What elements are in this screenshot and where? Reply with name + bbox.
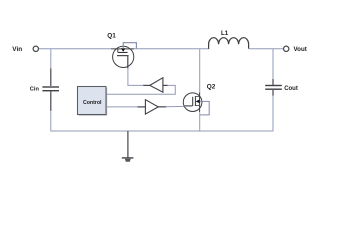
wire control to high-side driver (107, 85, 176, 94)
wire Q2 body-source loop (200, 101, 210, 115)
terminal Vout (284, 46, 289, 51)
transistor Q1 (111, 46, 134, 68)
wire control to low-side driver (107, 106, 138, 108)
wire input drop to Cin (50, 49, 52, 69)
wire Cout drop to ground rail (272, 96, 274, 132)
op-amp driver A2 (145, 100, 158, 114)
wire bottom ground rail (51, 130, 273, 132)
svg-text:Control: Control (83, 100, 102, 106)
op-amp driver A1 (150, 78, 163, 93)
wire low-side driver input lead (138, 106, 146, 108)
svg-text:Cin: Cin (30, 87, 40, 93)
terminal Vin (33, 46, 38, 51)
wire ground stem (127, 131, 129, 158)
wire Cout top lead (272, 79, 274, 85)
wire driver A2 output to Q2 gate (166, 105, 185, 107)
capacitor Cout (265, 85, 282, 90)
capacitor Cin (42, 86, 59, 91)
transistor Q2 (183, 93, 202, 113)
svg-text:L1: L1 (221, 30, 229, 37)
wire driver A1 output to Q1 gate (128, 68, 144, 85)
wire left drop to ground rail (50, 111, 52, 132)
wire output drop to Cout (272, 49, 274, 80)
inductor L1 (209, 38, 249, 49)
control block (78, 87, 108, 116)
wire switch node drop to Q2 (199, 49, 201, 94)
wire switch node rail (134, 48, 209, 50)
svg-text:Vout: Vout (294, 46, 307, 53)
wire Vin rail (39, 48, 112, 50)
wire output rail (249, 48, 284, 50)
wire Cin bottom lead (50, 92, 52, 112)
svg-text:Cout: Cout (284, 86, 298, 92)
svg-text:Vin: Vin (12, 46, 22, 53)
wire low-side driver output lead (158, 106, 166, 108)
svg-text:Q1: Q1 (107, 33, 116, 40)
svg-text:Q2: Q2 (207, 84, 216, 91)
wire Cin top lead (50, 69, 52, 87)
wire Cout bottom lead (272, 90, 274, 96)
wire high-side driver output lead (143, 84, 150, 86)
wire Q2 source to ground rail (199, 112, 201, 131)
wire high-side driver input lead (163, 84, 168, 86)
ground (122, 157, 134, 162)
wire Q1 body-source loop (123, 43, 136, 49)
